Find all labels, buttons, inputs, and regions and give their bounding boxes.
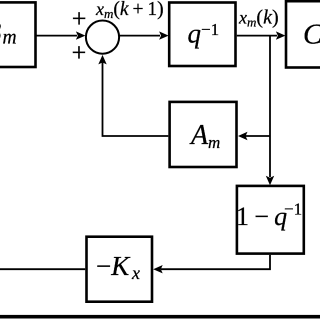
svg-text:A: A xyxy=(189,120,209,151)
arrowhead into summing junction xyxy=(76,31,86,39)
summing junction circle xyxy=(86,20,119,53)
svg-text:B: B xyxy=(0,17,2,48)
arrowhead into -K_x right xyxy=(153,265,163,273)
svg-text:x: x xyxy=(131,263,140,283)
svg-text:q: q xyxy=(188,19,202,49)
block A_m xyxy=(170,102,237,167)
svg-text:m: m xyxy=(3,28,17,49)
svg-text:−K: −K xyxy=(96,251,131,281)
wire q^-1 to C xyxy=(237,35,277,37)
arrowhead into q^-1 xyxy=(159,31,169,39)
wire 1-q^-1 down and left to -K_x xyxy=(161,255,270,269)
block 1-q^-1 xyxy=(237,186,304,254)
svg-text:1 − q: 1 − q xyxy=(236,202,287,231)
block q^-1 xyxy=(169,3,235,67)
svg-text:+: + xyxy=(72,4,87,33)
svg-text:+: + xyxy=(72,38,87,67)
block -K_x xyxy=(87,237,153,302)
arrowhead into 1-q^-1 top xyxy=(266,176,274,186)
block B_m (cut off at left edge) xyxy=(0,2,36,67)
arrowhead into summing junction bottom xyxy=(98,55,106,65)
svg-text:−1: −1 xyxy=(201,20,219,39)
arrowhead into C xyxy=(276,31,286,39)
svg-text:xm(k): xm(k) xyxy=(238,7,279,30)
svg-text:−1: −1 xyxy=(284,200,302,219)
svg-text:C: C xyxy=(303,18,320,50)
wire summing junction to q^-1 xyxy=(120,35,161,37)
wire tee branch to A_m xyxy=(245,135,270,137)
wire tee junction down to 1-q^-1 xyxy=(269,36,271,177)
svg-text:m: m xyxy=(208,133,220,152)
block C (cut off at right edge) xyxy=(286,1,320,67)
bottom frame line xyxy=(0,315,320,319)
feedback wire A_m to summing junction xyxy=(103,62,169,136)
wire B_m to summing junction xyxy=(36,35,78,37)
arrowhead into A_m right xyxy=(238,132,248,140)
wire -K_x out to left edge xyxy=(0,268,85,270)
